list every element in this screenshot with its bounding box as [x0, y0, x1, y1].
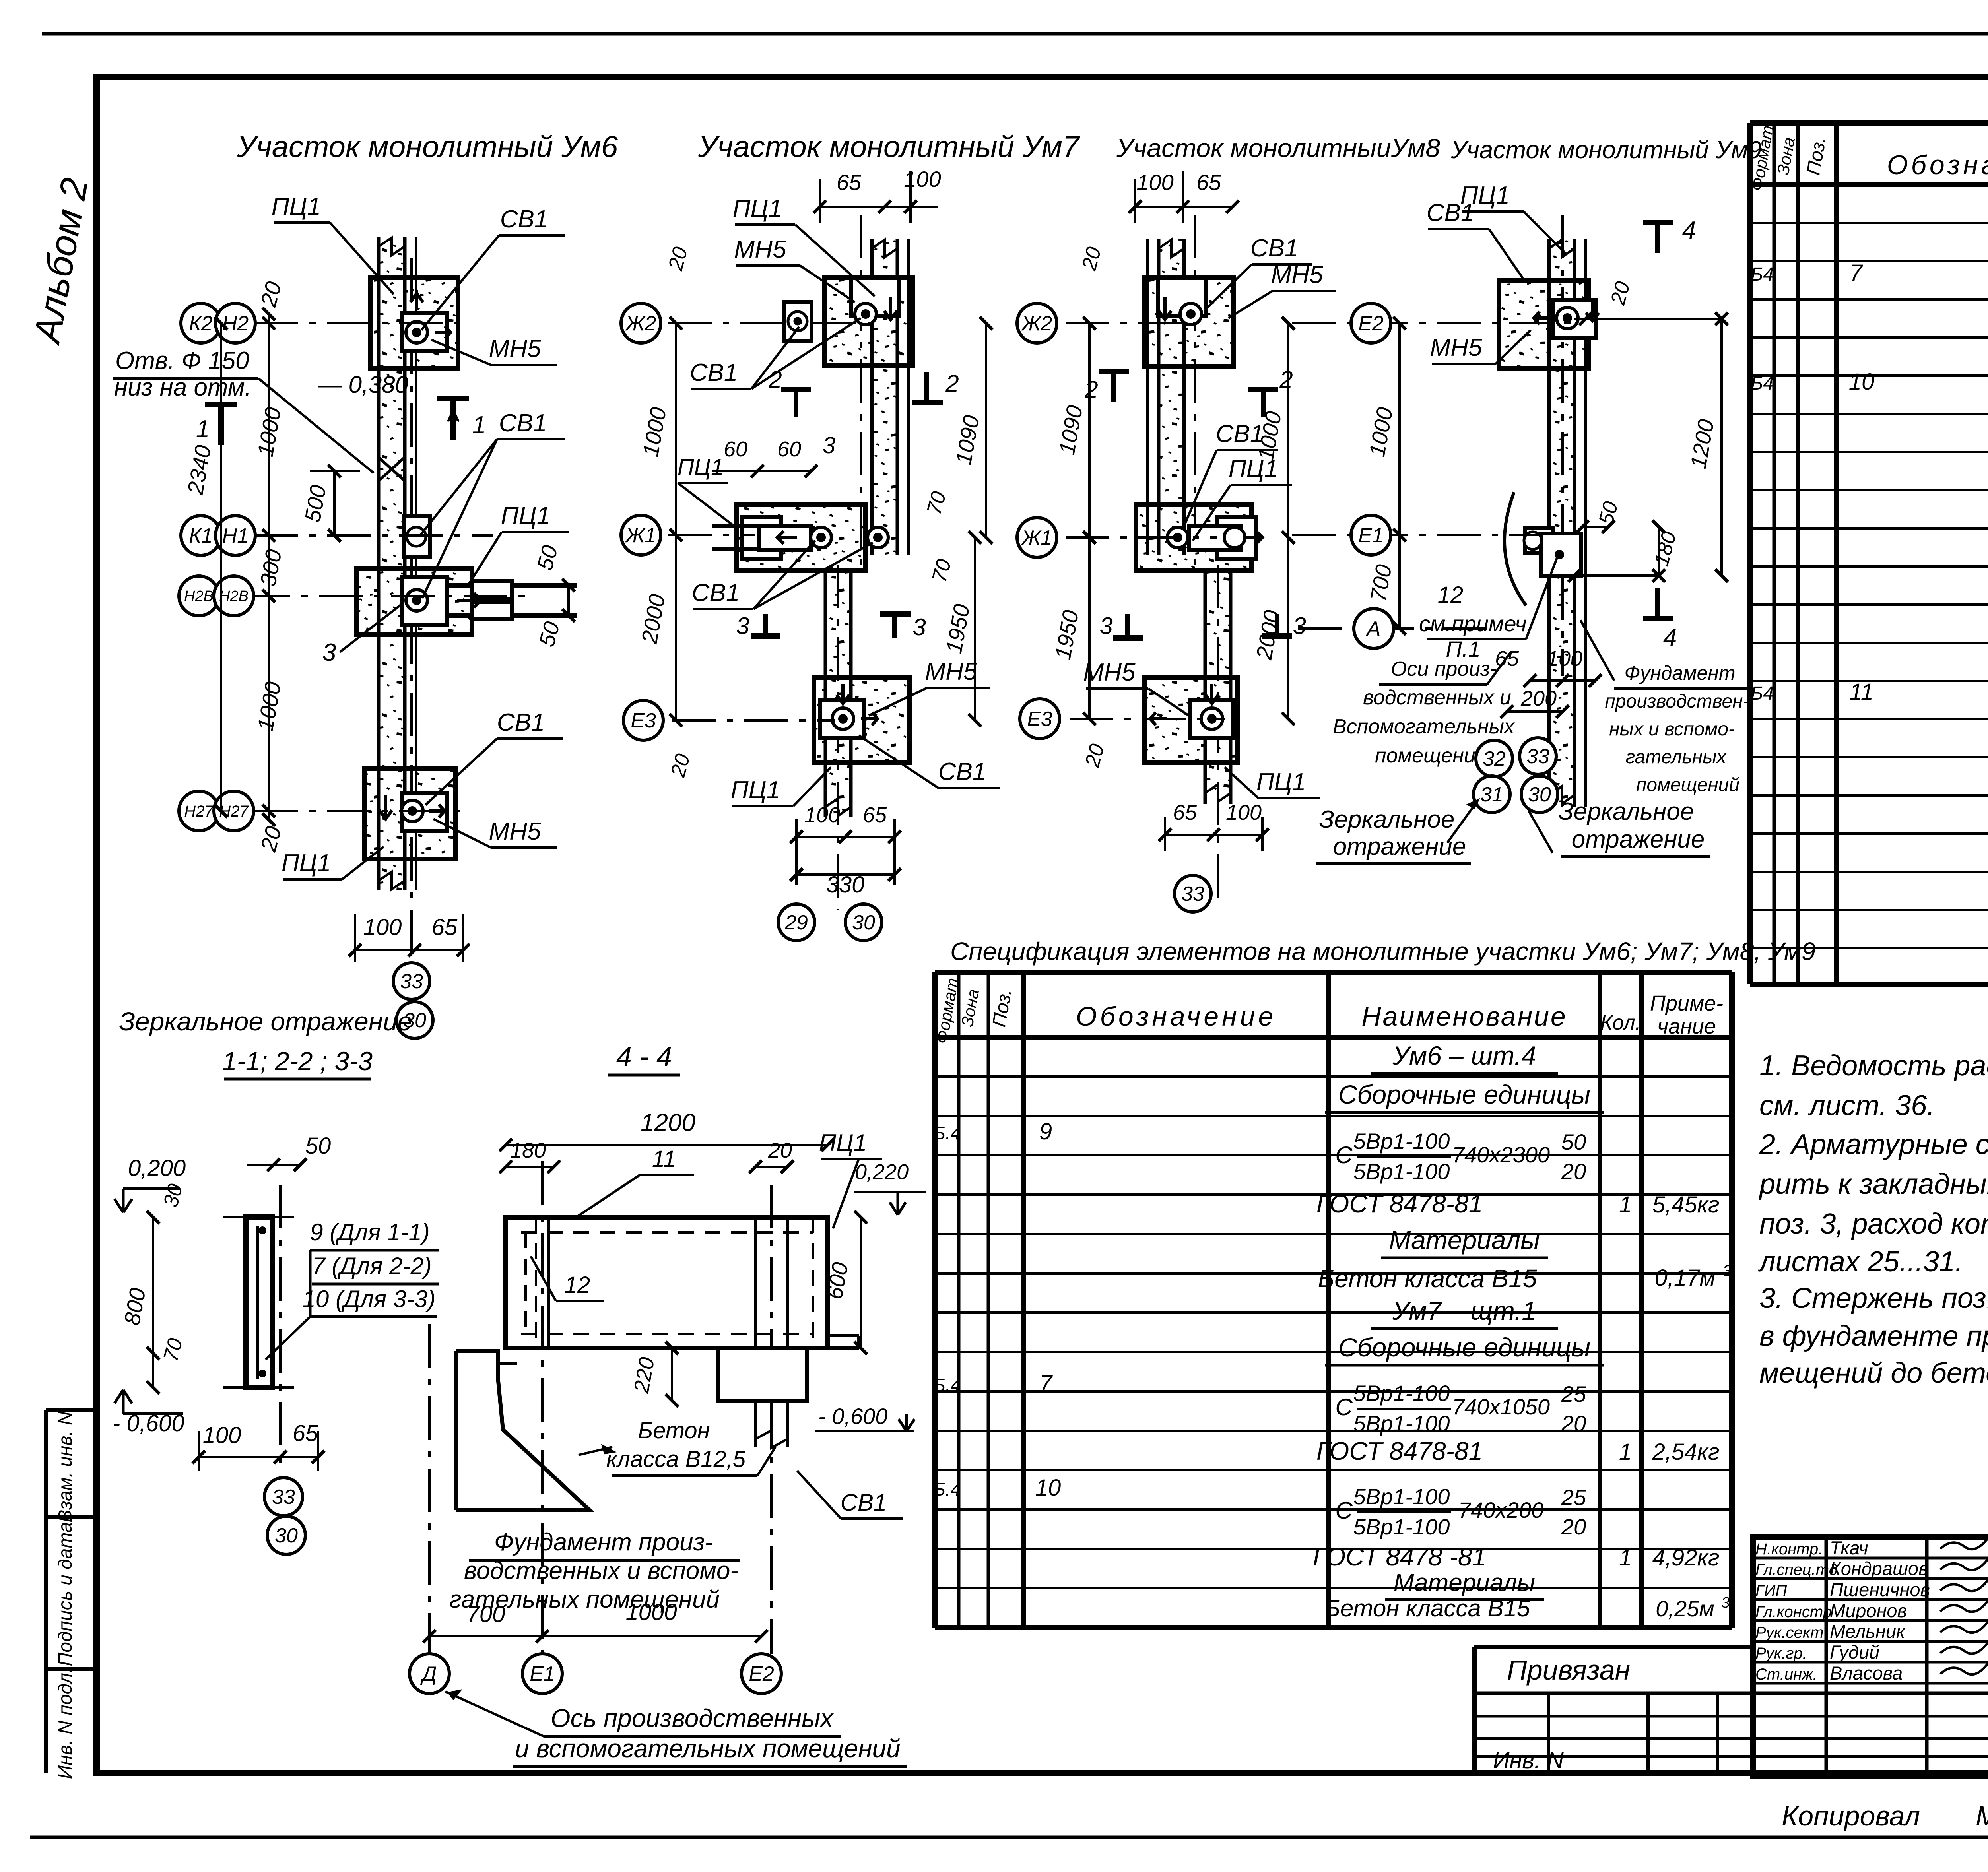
svg-text:ПЦ1: ПЦ1 [1256, 768, 1306, 796]
svg-text:МН5: МН5 [489, 335, 541, 363]
svg-text:Б.4: Б.4 [934, 1479, 961, 1500]
svg-text:ных и вспомо-: ных и вспомо- [1609, 719, 1735, 740]
svg-text:Ж1: Ж1 [625, 524, 656, 547]
svg-text:С: С [1335, 1497, 1353, 1524]
svg-text:5Вр1-100: 5Вр1-100 [1353, 1484, 1450, 1509]
svg-text:класса В12,5: класса В12,5 [606, 1446, 746, 1472]
svg-text:Е3: Е3 [1027, 708, 1052, 731]
svg-text:Гл.констр: Гл.констр [1755, 1603, 1832, 1621]
svg-text:25: 25 [1561, 1381, 1586, 1406]
svg-text:9: 9 [1039, 1119, 1052, 1145]
svg-text:Бетон класса В15: Бетон класса В15 [1318, 1264, 1537, 1293]
svg-text:Бетон класса В15: Бетон класса В15 [1325, 1595, 1530, 1622]
svg-text:А: А [1366, 617, 1381, 640]
svg-text:Н2В: Н2В [219, 588, 248, 605]
svg-text:Власова: Власова [1830, 1662, 1903, 1684]
svg-text:Инв. N подл.: Инв. N подл. [55, 1668, 76, 1779]
svg-text:1: 1 [1619, 1439, 1632, 1465]
svg-text:7 (Для 2-2): 7 (Для 2-2) [312, 1253, 432, 1279]
svg-text:Н2В: Н2В [184, 588, 214, 605]
svg-text:СВ1: СВ1 [1216, 420, 1264, 448]
svg-text:поз. 3, расход которых см.: поз. 3, расход которых см. спецификации … [1759, 1208, 1988, 1240]
svg-text:Участок монолитный Ум6: Участок монолитный Ум6 [237, 130, 618, 164]
svg-text:100: 100 [1136, 170, 1173, 195]
svg-text:65: 65 [863, 803, 887, 827]
svg-text:11: 11 [652, 1146, 676, 1172]
svg-text:3: 3 [1723, 1262, 1732, 1280]
svg-text:Е2: Е2 [749, 1662, 774, 1686]
svg-text:ГИП: ГИП [1755, 1582, 1787, 1600]
svg-text:- 0,600: - 0,600 [818, 1404, 887, 1429]
svg-text:чание: чание [1657, 1015, 1716, 1038]
svg-text:Рук.сект: Рук.сект [1755, 1624, 1824, 1641]
svg-text:Е2: Е2 [1358, 312, 1384, 335]
svg-text:Зеркальное: Зеркальное [1319, 806, 1455, 833]
svg-text:Привязан: Привязан [1507, 1655, 1630, 1686]
svg-text:МН5: МН5 [925, 658, 977, 685]
svg-text:Б4: Б4 [1751, 683, 1774, 704]
svg-text:10: 10 [1035, 1475, 1061, 1501]
svg-text:Гл.спец.тд: Гл.спец.тд [1755, 1561, 1838, 1579]
svg-text:отражение: отражение [1333, 833, 1466, 860]
svg-text:МН5: МН5 [1083, 659, 1136, 686]
svg-text:29: 29 [784, 911, 808, 934]
svg-text:20: 20 [1561, 1159, 1586, 1184]
svg-text:0,200: 0,200 [128, 1155, 186, 1181]
svg-text:СВ1: СВ1 [1250, 235, 1299, 262]
svg-text:100: 100 [203, 1422, 241, 1448]
svg-text:65: 65 [837, 170, 862, 195]
svg-text:рить к закладным элементам: рить к закладным элементам МН5 и стержню [1759, 1168, 1988, 1200]
svg-text:7: 7 [1039, 1371, 1053, 1397]
svg-text:Е1: Е1 [1358, 524, 1384, 547]
svg-text:К1: К1 [189, 524, 213, 547]
svg-text:- 0,600: - 0,600 [113, 1410, 184, 1436]
svg-text:20: 20 [1561, 1514, 1586, 1539]
svg-text:листах 25...31.: листах 25...31. [1758, 1246, 1963, 1278]
svg-text:Б.4: Б.4 [934, 1375, 961, 1395]
svg-text:0,17м: 0,17м [1655, 1265, 1716, 1291]
svg-text:Отв. Ф 150: Отв. Ф 150 [115, 347, 249, 374]
svg-text:Фундамент: Фундамент [1625, 662, 1736, 684]
svg-text:Копировал: Копировал [1782, 1800, 1920, 1831]
svg-text:12: 12 [1438, 582, 1464, 608]
svg-text:5Вр1-100: 5Вр1-100 [1353, 1411, 1450, 1436]
svg-text:25: 25 [1561, 1485, 1586, 1510]
svg-text:5Вр1-100: 5Вр1-100 [1353, 1129, 1450, 1154]
svg-text:65: 65 [1196, 170, 1221, 195]
svg-text:4,92кг: 4,92кг [1652, 1545, 1720, 1571]
svg-text:30: 30 [852, 911, 875, 934]
svg-text:Зеркальное: Зеркальное [1559, 798, 1694, 825]
svg-text:Б4: Б4 [1751, 373, 1774, 394]
svg-text:СВ1: СВ1 [690, 359, 738, 386]
svg-text:Участок монолитный Ум7: Участок монолитный Ум7 [698, 130, 1080, 164]
svg-text:Оси произ-: Оси произ- [1391, 658, 1497, 681]
svg-text:Материалы: Материалы [1389, 1225, 1540, 1255]
svg-text:СВ1: СВ1 [841, 1489, 887, 1516]
svg-text:водственных и вспомо-: водственных и вспомо- [464, 1557, 738, 1585]
svg-text:100: 100 [804, 803, 840, 827]
svg-text:12: 12 [565, 1272, 590, 1298]
svg-text:производствен-: производствен- [1605, 691, 1749, 712]
svg-text:33: 33 [400, 970, 423, 993]
svg-text:в фундаменте производственны: в фундаменте производственных и вспомога… [1759, 1320, 1988, 1352]
svg-text:2,54кг: 2,54кг [1652, 1439, 1720, 1465]
svg-text:Ум6 – шт.4: Ум6 – шт.4 [1392, 1041, 1536, 1070]
svg-text:Материалы: Материалы [1394, 1569, 1535, 1597]
svg-text:50: 50 [305, 1133, 331, 1159]
svg-text:Рук.гр.: Рук.гр. [1755, 1645, 1807, 1662]
svg-text:СВ1: СВ1 [499, 409, 547, 437]
svg-text:СВ1: СВ1 [500, 206, 548, 233]
svg-text:Ж1: Ж1 [1021, 526, 1052, 549]
svg-text:МН5: МН5 [734, 236, 786, 263]
svg-text:7: 7 [1850, 260, 1864, 286]
svg-text:180: 180 [510, 1139, 546, 1162]
svg-text:2: 2 [945, 370, 959, 397]
svg-text:Приме-: Приме- [1650, 991, 1723, 1015]
svg-text:К2: К2 [189, 312, 213, 335]
svg-text:4 - 4: 4 - 4 [616, 1041, 672, 1072]
svg-text:ГОСТ 8478-81: ГОСТ 8478-81 [1316, 1189, 1483, 1218]
svg-text:Ж2: Ж2 [625, 312, 656, 335]
svg-text:ПЦ1: ПЦ1 [819, 1129, 867, 1156]
svg-text:Б.4: Б.4 [934, 1123, 961, 1143]
svg-text:Гудий: Гудий [1830, 1641, 1879, 1662]
svg-text:100: 100 [1226, 801, 1262, 824]
svg-text:1: 1 [1619, 1192, 1632, 1218]
svg-text:Участок монолитный Ум9: Участок монолитный Ум9 [1450, 136, 1762, 164]
svg-text:— 0,380: — 0,380 [318, 371, 408, 398]
svg-text:Зеркальное отражение: Зеркальное отражение [119, 1007, 412, 1036]
svg-text:31: 31 [1480, 783, 1503, 806]
svg-text:3. Стержень поз. 12 приварит: 3. Стержень поз. 12 приварить к закладно… [1759, 1282, 1988, 1314]
svg-text:32: 32 [1483, 747, 1506, 770]
svg-text:33: 33 [272, 1486, 295, 1509]
svg-text:помещений: помещений [1375, 744, 1487, 767]
svg-text:740х200: 740х200 [1458, 1498, 1544, 1523]
svg-text:Подпись и дата: Подпись и дата [55, 1522, 76, 1666]
svg-text:Кол.: Кол. [1600, 1011, 1641, 1034]
svg-text:100: 100 [363, 914, 402, 940]
svg-text:Спецификация элементов на мон: Спецификация элементов на монолитные уча… [950, 937, 1815, 966]
svg-text:3: 3 [912, 614, 926, 640]
svg-text:Н2: Н2 [222, 312, 249, 335]
svg-text:10: 10 [1849, 369, 1875, 395]
svg-text:30: 30 [1528, 783, 1551, 806]
svg-text:5,45кг: 5,45кг [1652, 1192, 1720, 1218]
svg-text:МН5: МН5 [1430, 334, 1482, 361]
svg-text:9 (Для 1-1): 9 (Для 1-1) [310, 1219, 430, 1245]
svg-text:3: 3 [823, 433, 835, 458]
svg-text:0,220: 0,220 [855, 1160, 909, 1184]
svg-text:МН5: МН5 [1271, 261, 1323, 289]
svg-text:Сборочные единицы: Сборочные единицы [1338, 1080, 1591, 1109]
svg-text:Ст.инж.: Ст.инж. [1755, 1666, 1817, 1683]
svg-text:см.примеч.: см.примеч. [1419, 611, 1533, 636]
svg-text:Н27: Н27 [184, 803, 214, 820]
svg-text:Н1: Н1 [222, 524, 248, 547]
svg-text:ПЦ1: ПЦ1 [733, 195, 782, 222]
svg-text:33: 33 [1526, 745, 1549, 768]
svg-text:Обозначение: Обозначение [1076, 1001, 1277, 1032]
svg-text:100: 100 [1547, 647, 1582, 671]
svg-text:Инв. N: Инв. N [1493, 1748, 1564, 1773]
svg-text:3: 3 [1293, 613, 1306, 639]
svg-text:Участок монолитныиУм8: Участок монолитныиУм8 [1116, 133, 1440, 163]
svg-text:65: 65 [1173, 801, 1197, 824]
svg-text:1: 1 [1619, 1545, 1632, 1571]
svg-text:2. Арматурные сетки моноли: 2. Арматурные сетки монолитных участков … [1759, 1129, 1988, 1160]
svg-text:ГОСТ 8478-81: ГОСТ 8478-81 [1316, 1437, 1483, 1465]
svg-text:4: 4 [1682, 217, 1696, 244]
svg-text:11: 11 [1850, 679, 1873, 705]
svg-text:3: 3 [736, 613, 749, 639]
svg-text:СВ1: СВ1 [497, 709, 545, 736]
svg-text:5Вр1-100: 5Вр1-100 [1353, 1159, 1450, 1184]
svg-text:Пшеничнов: Пшеничнов [1830, 1579, 1930, 1600]
svg-text:см. лист. 36.: см. лист. 36. [1759, 1090, 1935, 1121]
svg-text:33: 33 [1181, 883, 1204, 906]
svg-text:Н.контр.: Н.контр. [1755, 1540, 1823, 1558]
svg-text:2: 2 [1279, 366, 1293, 393]
svg-text:20: 20 [1561, 1411, 1586, 1436]
svg-text:Е1: Е1 [530, 1662, 555, 1686]
svg-text:отражение: отражение [1572, 826, 1705, 853]
svg-text:МН5: МН5 [489, 818, 541, 845]
svg-text:Бетон: Бетон [638, 1418, 710, 1443]
svg-text:гательных: гательных [1626, 747, 1727, 768]
svg-text:и вспомогательных помещений: и вспомогательных помещений [515, 1734, 900, 1763]
svg-text:1. Ведомость расхода стали: 1. Ведомость расхода стали на Ум6, Ум7, … [1759, 1050, 1988, 1082]
svg-text:1: 1 [196, 415, 210, 443]
svg-text:Наименование: Наименование [1361, 1001, 1567, 1032]
svg-text:мещений до бетонирования м: мещений до бетонирования монолитного уча… [1759, 1357, 1988, 1389]
svg-text:ПЦ1: ПЦ1 [501, 502, 550, 530]
svg-text:3: 3 [322, 639, 336, 666]
svg-text:Д: Д [420, 1662, 437, 1686]
svg-text:СВ1: СВ1 [938, 758, 986, 786]
svg-text:ПЦ1: ПЦ1 [678, 454, 724, 480]
svg-text:740х2300: 740х2300 [1452, 1142, 1550, 1167]
svg-text:Сборочные единицы: Сборочные единицы [1338, 1333, 1591, 1362]
svg-text:Муратова: Муратова [1976, 1800, 1988, 1831]
svg-text:Ось производственных: Ось производственных [551, 1704, 834, 1732]
svg-text:Вспомогательных: Вспомогательных [1333, 715, 1515, 738]
svg-text:65: 65 [293, 1420, 318, 1446]
svg-text:Мельник: Мельник [1830, 1621, 1906, 1642]
svg-text:5Вр1-100: 5Вр1-100 [1353, 1381, 1450, 1406]
svg-text:2: 2 [1084, 376, 1098, 403]
svg-text:20: 20 [768, 1139, 792, 1162]
svg-text:ПЦ1: ПЦ1 [282, 850, 331, 877]
svg-text:Ум7 – щт.1: Ум7 – щт.1 [1392, 1296, 1536, 1325]
svg-text:Миронов: Миронов [1830, 1600, 1907, 1621]
svg-text:3: 3 [1099, 613, 1112, 639]
svg-text:3: 3 [1721, 1595, 1730, 1611]
svg-text:50: 50 [1561, 1129, 1586, 1154]
svg-text:СВ1: СВ1 [692, 579, 740, 607]
svg-text:60: 60 [724, 437, 747, 461]
svg-text:С: С [1335, 1142, 1353, 1168]
svg-text:1200: 1200 [641, 1109, 695, 1137]
svg-text:10 (Для 3-3): 10 (Для 3-3) [303, 1286, 436, 1312]
svg-text:С: С [1335, 1394, 1353, 1420]
svg-text:200: 200 [1520, 687, 1557, 710]
svg-text:330: 330 [826, 872, 865, 898]
svg-text:Ткач: Ткач [1830, 1537, 1868, 1558]
svg-text:ГОСТ 8478 -81: ГОСТ 8478 -81 [1313, 1542, 1486, 1571]
svg-text:30: 30 [275, 1524, 298, 1547]
svg-text:60: 60 [777, 437, 801, 461]
svg-text:Взам. инв. N: Взам. инв. N [55, 1411, 76, 1523]
svg-text:ПЦ1: ПЦ1 [272, 193, 321, 220]
svg-text:гательных помещений: гательных помещений [449, 1586, 720, 1613]
svg-text:740х1050: 740х1050 [1452, 1394, 1550, 1419]
svg-text:Е3: Е3 [631, 709, 656, 732]
svg-text:Обозначение: Обозначение [1887, 150, 1988, 180]
svg-text:Кондрашов: Кондрашов [1830, 1558, 1928, 1579]
svg-text:100: 100 [904, 167, 941, 192]
svg-text:Фундамент произ-: Фундамент произ- [494, 1529, 713, 1556]
svg-text:65: 65 [432, 914, 458, 940]
svg-text:0,25м: 0,25м [1656, 1596, 1714, 1621]
svg-text:Ж2: Ж2 [1021, 312, 1052, 335]
svg-text:1-1; 2-2 ; 3-3: 1-1; 2-2 ; 3-3 [222, 1046, 373, 1076]
svg-text:ПЦ1: ПЦ1 [731, 776, 780, 804]
svg-text:4: 4 [1663, 624, 1677, 652]
svg-text:СВ1: СВ1 [1427, 199, 1475, 227]
svg-text:1: 1 [472, 411, 486, 439]
svg-text:Б4: Б4 [1751, 264, 1774, 285]
svg-text:помещений: помещений [1636, 774, 1739, 795]
svg-text:5Вр1-100: 5Вр1-100 [1353, 1514, 1450, 1539]
svg-text:ПЦ1: ПЦ1 [1229, 455, 1278, 483]
svg-text:водственных и: водственных и [1363, 686, 1511, 709]
